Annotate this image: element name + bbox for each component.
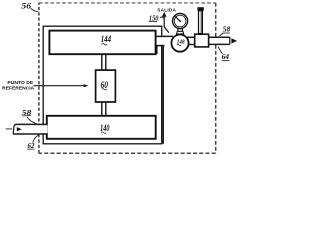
svg-text:PUNTO DE: PUNTO DE xyxy=(7,80,33,85)
svg-text:140: 140 xyxy=(100,124,110,134)
inlet flow stub + arrow xyxy=(6,128,13,130)
text PUNTO DE REFERENCIA xyxy=(2,80,35,90)
svg-text:56: 56 xyxy=(21,1,31,10)
leader for 56 xyxy=(31,8,39,11)
salida direction arrow xyxy=(164,16,169,32)
box 144 xyxy=(49,31,155,55)
wire: reference arrow to box 60 xyxy=(34,85,85,87)
conduit down from regulator junction xyxy=(162,46,164,144)
regulator neck/collar xyxy=(177,28,179,31)
gauge 150 xyxy=(173,13,188,28)
svg-text:150: 150 xyxy=(149,13,159,22)
svg-text:58: 58 xyxy=(223,25,231,34)
outlet arrow xyxy=(231,38,237,43)
label 56 xyxy=(21,1,31,10)
valve body xyxy=(195,34,209,47)
svg-text:REFERENCIA: REFERENCIA xyxy=(2,86,35,91)
svg-text:62: 62 xyxy=(28,141,35,150)
jog from box 144 bottom-right corner up to pipe line xyxy=(156,46,158,54)
pipe 60 to 140 (vertical) xyxy=(101,101,103,116)
box 60 xyxy=(96,70,116,102)
wire: pipe 144 to regulator (white interior) xyxy=(156,37,173,45)
wire: outlet pipe (white cuts dashed border) xyxy=(209,38,230,44)
svg-text:SALIDA: SALIDA xyxy=(157,7,176,12)
dashed enclosure 56 xyxy=(39,2,216,4)
valve cap xyxy=(197,7,203,11)
big inner housing rectangle xyxy=(43,26,162,144)
valve stem xyxy=(199,11,203,34)
wire: pipe regulator to valve xyxy=(186,38,195,44)
regulator U1 (148) xyxy=(171,35,188,52)
box 140 xyxy=(47,116,156,139)
pipe 144 to 60 (vertical) xyxy=(103,55,106,70)
wire: inlet pipe 58 (bottom left) xyxy=(13,125,47,133)
